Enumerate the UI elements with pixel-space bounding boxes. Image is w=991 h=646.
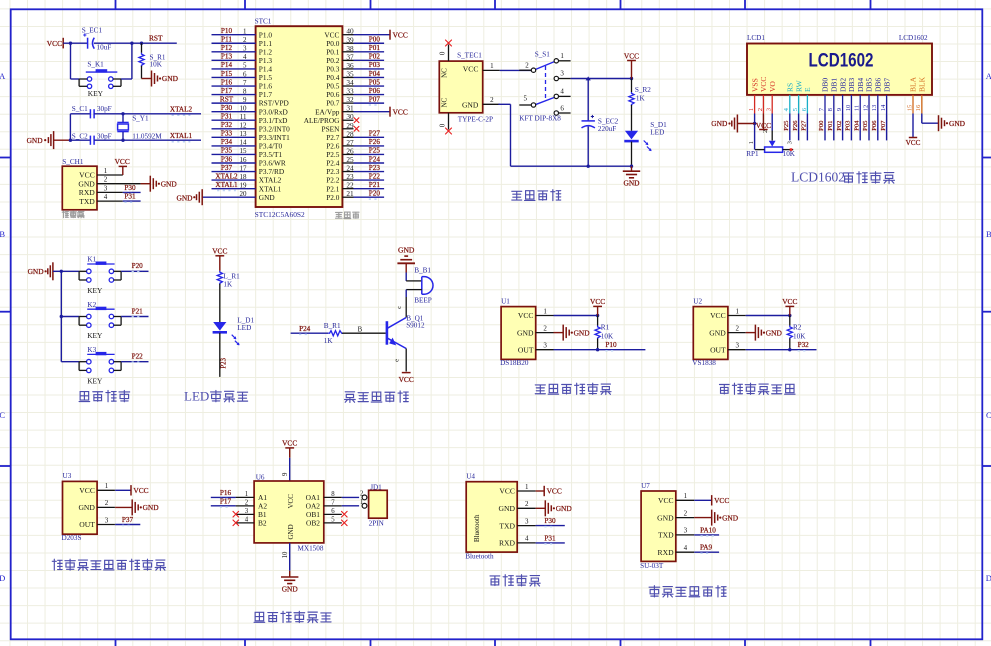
svg-text:3: 3 [684, 527, 688, 535]
svg-text:P25: P25 [369, 147, 381, 155]
svg-text:GND: GND [161, 179, 178, 188]
svg-text:P21: P21 [132, 307, 144, 315]
power port VCC (led) [215, 255, 224, 257]
svg-text:OUT: OUT [710, 345, 726, 354]
svg-text:10K: 10K [783, 150, 796, 158]
svg-text:OUT: OUT [79, 520, 95, 529]
title voice module hanzi [649, 586, 660, 597]
junction [788, 348, 791, 351]
svg-text:VCC: VCC [756, 121, 771, 130]
wire [868, 114, 870, 141]
power port VCC (u4) [543, 486, 545, 496]
hanzi label danpianji [336, 212, 343, 218]
connector S_TEC1 TYPE-C-2P [439, 52, 493, 124]
svg-text:5: 5 [524, 95, 528, 103]
svg-text:VCC: VCC [399, 375, 414, 384]
svg-text:PA10: PA10 [700, 526, 716, 534]
svg-text:VCC: VCC [393, 107, 408, 116]
svg-text:GND: GND [556, 504, 573, 513]
svg-text:2: 2 [543, 324, 547, 332]
svg-text:GND: GND [499, 504, 516, 513]
svg-text:DS18B20: DS18B20 [500, 359, 529, 367]
wire [211, 505, 236, 507]
power port VCC (buzzer) [402, 372, 411, 374]
svg-text:XTAL1: XTAL1 [170, 132, 193, 140]
svg-text:30pF: 30pF [97, 132, 112, 140]
svg-text:P26: P26 [369, 138, 381, 146]
svg-text:VCC: VCC [463, 64, 479, 73]
svg-text:D203S: D203S [62, 534, 82, 542]
svg-text:P04: P04 [369, 70, 381, 78]
svg-text:P20: P20 [132, 262, 144, 270]
pin 0 top stub [448, 45, 450, 62]
svg-text:B: B [986, 229, 991, 239]
wire [219, 256, 221, 271]
svg-text:P13: P13 [221, 53, 233, 61]
svg-text:S_Y1: S_Y1 [132, 114, 149, 122]
svg-text:30pF: 30pF [97, 105, 112, 113]
svg-text:LCD1: LCD1 [747, 34, 765, 42]
wire [694, 534, 719, 536]
svg-text:B: B [358, 326, 363, 333]
svg-text:P32: P32 [798, 341, 810, 349]
no connect X [446, 128, 452, 134]
svg-text:2PIN: 2PIN [369, 519, 385, 527]
pin 3 [97, 191, 123, 193]
svg-text:TXD: TXD [499, 521, 515, 530]
svg-text:10K: 10K [793, 332, 806, 340]
svg-text:2: 2 [525, 500, 529, 508]
svg-text:K3: K3 [87, 346, 96, 354]
svg-text:4: 4 [245, 517, 249, 524]
resistor B_R1 1K [324, 322, 343, 345]
svg-text:B_B1: B_B1 [414, 267, 431, 275]
svg-text:VCC: VCC [499, 487, 515, 496]
ground [149, 176, 151, 192]
svg-text:P26: P26 [792, 120, 799, 131]
wire [886, 114, 888, 141]
svg-text:P07: P07 [880, 120, 887, 131]
svg-text:2: 2 [104, 176, 108, 184]
key switch K3 [79, 346, 121, 385]
wire [694, 517, 712, 519]
power port VCC (u1) [593, 305, 602, 307]
svg-text:P30: P30 [124, 184, 136, 192]
svg-text:1: 1 [736, 307, 740, 315]
svg-text:PA9: PA9 [700, 544, 713, 552]
svg-text:3: 3 [245, 508, 249, 515]
svg-text:P24: P24 [299, 325, 311, 333]
svg-text:220uF: 220uF [598, 125, 616, 133]
module U3 D203S [62, 472, 115, 542]
svg-text:GND: GND [176, 194, 193, 203]
u6 left pin 1 [236, 496, 255, 498]
svg-text:1: 1 [748, 141, 755, 144]
svg-text:P27: P27 [369, 130, 381, 138]
power port VCC [389, 107, 391, 117]
svg-text:KEY: KEY [88, 89, 104, 98]
svg-text:GND: GND [722, 513, 739, 522]
svg-text:VCC: VCC [624, 51, 639, 60]
svg-text:P10: P10 [221, 27, 233, 35]
wire [121, 270, 148, 272]
svg-text:P11: P11 [221, 36, 232, 44]
module U2 VS1838 [692, 297, 745, 367]
buzzer B_B1 BEEP [414, 267, 433, 305]
svg-text:P04: P04 [853, 120, 860, 131]
wire base [342, 332, 385, 334]
svg-text:B: B [0, 229, 5, 239]
svg-text:P01: P01 [369, 44, 381, 52]
svg-text:e: e [393, 359, 400, 362]
svg-text:GND: GND [574, 328, 591, 337]
svg-text:KEY: KEY [87, 331, 103, 340]
power port VCC [389, 30, 391, 40]
svg-text:GND: GND [78, 179, 95, 188]
svg-text:GND: GND [78, 503, 95, 512]
svg-text:S_C1: S_C1 [72, 105, 88, 113]
svg-text:3: 3 [104, 184, 108, 192]
resistor R1 10K [595, 316, 614, 350]
connector JD1 2PIN [362, 483, 387, 527]
wire [289, 571, 291, 577]
crystal S_Y1 11.0592M [117, 114, 162, 141]
svg-text:P27: P27 [801, 120, 808, 131]
svg-text:P06: P06 [871, 120, 878, 131]
pin 1 [483, 69, 500, 71]
u6 left pin 3 [236, 513, 255, 515]
junction [130, 42, 133, 45]
svg-text:GND: GND [143, 503, 160, 512]
svg-text:LED: LED [184, 388, 209, 403]
svg-text:VCC: VCC [212, 247, 227, 256]
svg-text:S_K1: S_K1 [87, 61, 104, 69]
svg-text:TXD: TXD [79, 197, 95, 206]
svg-text:LCD1602: LCD1602 [899, 34, 928, 42]
svg-text:DB7: DB7 [882, 78, 891, 92]
svg-text:VCC: VCC [115, 157, 130, 166]
svg-text:12: 12 [862, 105, 869, 112]
wire [631, 166, 633, 171]
svg-text:P34: P34 [221, 138, 233, 146]
resistor S_R2 1K [629, 79, 651, 131]
svg-text:P05: P05 [862, 120, 869, 131]
u6 right pin 7 [324, 505, 342, 507]
power port VCC (u3) [130, 485, 132, 495]
lcd module LCD1 LCD1602 [747, 34, 932, 95]
svg-text:MX1508: MX1508 [298, 544, 324, 552]
svg-text:BLA: BLA [909, 76, 918, 92]
wire bla [912, 114, 914, 138]
svg-text:4: 4 [560, 87, 564, 95]
svg-text:GND: GND [711, 119, 728, 128]
svg-text:GND: GND [623, 179, 640, 188]
svg-text:VCC: VCC [287, 494, 295, 509]
svg-text:GND: GND [28, 267, 45, 276]
title infrared module hanzi [719, 385, 729, 394]
svg-text:GND: GND [657, 513, 674, 522]
wire [554, 332, 564, 334]
svg-text:0: 0 [439, 123, 447, 127]
svg-text:LCD1602: LCD1602 [791, 170, 845, 185]
svg-text:BLK: BLK [918, 76, 927, 92]
svg-text:3: 3 [105, 516, 109, 524]
wire [536, 490, 545, 492]
wire [498, 103, 510, 105]
svg-text:K1: K1 [87, 256, 96, 264]
svg-text:VCC: VCC [518, 311, 534, 320]
wire [694, 551, 719, 553]
svg-text:VCC: VCC [79, 171, 95, 180]
key switch K2 [79, 301, 121, 340]
wire [289, 543, 291, 571]
svg-text:P05: P05 [369, 78, 381, 86]
svg-text:NC: NC [441, 68, 449, 78]
svg-text:2: 2 [684, 509, 688, 517]
wire [405, 349, 407, 372]
u6 right pin 8 [324, 496, 342, 498]
title power circuit hanzi [512, 191, 522, 200]
ground (u3) [131, 499, 133, 515]
svg-text:LED: LED [237, 324, 251, 332]
svg-text:U6: U6 [256, 473, 265, 481]
svg-text:KFT DIP-8X8: KFT DIP-8X8 [519, 115, 561, 123]
wire [70, 43, 72, 79]
svg-text:VCC: VCC [47, 39, 62, 48]
svg-text:P10: P10 [605, 341, 617, 349]
wire [850, 114, 852, 141]
no connect X b1 [233, 511, 239, 517]
svg-text:13: 13 [871, 104, 878, 111]
title bluetooth module hanzi [490, 576, 500, 586]
svg-text:P35: P35 [221, 147, 233, 155]
capacitor S_EC1 10uF [82, 26, 112, 51]
svg-text:2: 2 [105, 499, 109, 507]
capacitor S_C2 30pF [72, 132, 112, 144]
svg-text:B_R1: B_R1 [324, 322, 341, 330]
svg-text:P03: P03 [369, 61, 381, 69]
wire [842, 114, 844, 141]
wire [121, 361, 148, 363]
wire [61, 316, 79, 318]
u6 left pin 4 [236, 522, 255, 524]
svg-text:GND: GND [27, 136, 44, 145]
svg-text:K2: K2 [87, 301, 96, 309]
svg-text:S_CH1: S_CH1 [62, 158, 84, 166]
junction [121, 112, 124, 115]
svg-text:S_EC1: S_EC1 [82, 26, 103, 34]
svg-text:10uF: 10uF [97, 44, 112, 52]
wire [571, 78, 632, 80]
svg-text:10K: 10K [150, 61, 163, 69]
svg-text:RXD: RXD [79, 188, 96, 197]
svg-text:2: 2 [736, 324, 740, 332]
svg-text:P07: P07 [369, 95, 381, 103]
wire [406, 289, 422, 291]
svg-text:P20: P20 [369, 190, 381, 198]
wire [536, 507, 546, 509]
junction [586, 76, 591, 80]
svg-text:S9012: S9012 [406, 322, 425, 330]
power port VCC (u7) [711, 495, 713, 505]
potentiometer RP1 10K [746, 140, 796, 157]
svg-text:10: 10 [282, 551, 289, 558]
wire [859, 114, 861, 141]
svg-text:3: 3 [736, 342, 740, 350]
svg-text:DB6: DB6 [874, 78, 883, 92]
wire blk [921, 114, 923, 124]
svg-text:VCC: VCC [590, 297, 605, 306]
svg-text:P30: P30 [221, 104, 233, 112]
pin 0 bottom stub [448, 113, 450, 130]
svg-text:P2.0: P2.0 [326, 193, 340, 202]
svg-text:16: 16 [915, 104, 922, 111]
svg-text:P31: P31 [544, 534, 556, 542]
wire [405, 263, 407, 272]
ground (u6) [281, 576, 298, 578]
junction [630, 77, 633, 80]
svg-text:LED: LED [650, 129, 664, 137]
wire [824, 114, 826, 141]
junction [60, 270, 63, 273]
svg-text:1: 1 [748, 108, 755, 111]
svg-text:2: 2 [490, 96, 494, 104]
svg-text:P36: P36 [221, 155, 233, 163]
svg-text:6: 6 [331, 508, 335, 515]
svg-text:P16: P16 [221, 78, 233, 86]
svg-text:XTAL2: XTAL2 [170, 106, 193, 114]
title buzzer circuit hanzi [345, 392, 356, 403]
svg-text:DB1: DB1 [830, 78, 839, 92]
svg-text:9: 9 [282, 472, 289, 476]
wire [142, 78, 152, 80]
power port VCC (lcd) [762, 114, 764, 130]
ground (reset) [151, 71, 153, 87]
svg-text:A: A [0, 71, 6, 81]
svg-text:7: 7 [331, 500, 335, 507]
power port VCC (u6) [285, 447, 294, 449]
title key circuit hanzi [79, 392, 90, 402]
power port VCC [122, 166, 124, 175]
junction [140, 42, 143, 45]
mcu U STC1 STC12C5A60S2 [255, 17, 343, 219]
svg-text:P31: P31 [221, 113, 233, 121]
wire [536, 525, 565, 527]
transistor B_Q1 S9012 [387, 315, 425, 349]
led L_D1 [213, 316, 255, 345]
svg-text:P23: P23 [221, 357, 228, 368]
capacitor S_EC2 220uF [582, 79, 619, 167]
wire [123, 191, 141, 193]
svg-text:P00: P00 [369, 36, 381, 44]
svg-text:6: 6 [560, 104, 564, 112]
wire [115, 524, 140, 526]
svg-text:U2: U2 [693, 297, 702, 305]
key switch K1 [79, 256, 121, 295]
wire [219, 333, 221, 377]
svg-text:VSS: VSS [750, 78, 759, 92]
svg-text:R1: R1 [601, 324, 610, 332]
junction [69, 42, 72, 45]
svg-text:P24: P24 [369, 155, 381, 163]
svg-text:P02: P02 [836, 121, 843, 131]
svg-text:14: 14 [880, 104, 887, 111]
svg-text:TXD: TXD [658, 531, 674, 540]
svg-text:4: 4 [104, 193, 108, 201]
svg-text:1: 1 [245, 491, 248, 498]
svg-text:P15: P15 [221, 70, 233, 78]
svg-text:P22: P22 [132, 353, 144, 361]
svg-text:U1: U1 [501, 297, 510, 305]
svg-text:VCC: VCC [547, 487, 562, 496]
junction [630, 165, 633, 168]
key switch S_K1 [79, 61, 121, 98]
wire [291, 332, 329, 334]
svg-text:L_R1: L_R1 [223, 272, 240, 280]
svg-text:XTAL2: XTAL2 [215, 172, 238, 180]
u6 right pin 5 [324, 522, 342, 524]
svg-text:P21: P21 [369, 181, 381, 189]
svg-text:10K: 10K [601, 332, 614, 340]
wire [746, 349, 817, 351]
led S_D1 [624, 121, 667, 166]
svg-text:P01: P01 [827, 121, 834, 131]
ground (u1) [562, 325, 564, 341]
svg-text:GND: GND [709, 328, 726, 337]
svg-text:3: 3 [543, 342, 547, 350]
resistor R2 10K [787, 316, 806, 350]
junction [788, 314, 791, 317]
svg-text:1: 1 [560, 52, 564, 60]
svg-text:VCC: VCC [710, 311, 726, 320]
wire [833, 114, 835, 141]
pin 2 [483, 103, 500, 105]
wire [54, 139, 71, 141]
switch S_S1 KFT DIP-8X8 [519, 50, 570, 122]
svg-text:5: 5 [331, 517, 335, 524]
wire [61, 361, 79, 363]
svg-text:P25: P25 [783, 120, 790, 131]
svg-text:P37: P37 [122, 516, 134, 524]
svg-text:D: D [986, 573, 991, 583]
wire [53, 270, 61, 272]
wire [536, 542, 565, 544]
svg-text:VCC: VCC [782, 297, 797, 306]
module U7 SU-03T [640, 482, 694, 570]
wire [121, 78, 132, 80]
ground (power) [623, 170, 640, 172]
svg-text:RST: RST [220, 95, 234, 103]
wire vo to wiper [771, 114, 773, 131]
svg-text:OUT: OUT [518, 345, 534, 354]
svg-text:2: 2 [245, 500, 249, 507]
svg-text:GND: GND [462, 101, 479, 110]
svg-text:VCC: VCC [282, 439, 297, 448]
svg-text:P33: P33 [221, 130, 233, 138]
svg-text:15: 15 [906, 104, 913, 111]
svg-text:C: C [0, 410, 5, 420]
svg-text:1: 1 [104, 167, 108, 175]
no connect X [354, 118, 359, 123]
u6 right pin 6 [324, 513, 342, 515]
svg-text:STC1: STC1 [255, 17, 272, 25]
svg-text:P16: P16 [220, 489, 232, 497]
title motor circuit hanzi [254, 612, 265, 622]
svg-text:1: 1 [105, 482, 109, 490]
svg-text:3: 3 [560, 70, 564, 78]
svg-text:DB2: DB2 [838, 78, 847, 92]
resistor S_R1 10K [139, 43, 166, 78]
